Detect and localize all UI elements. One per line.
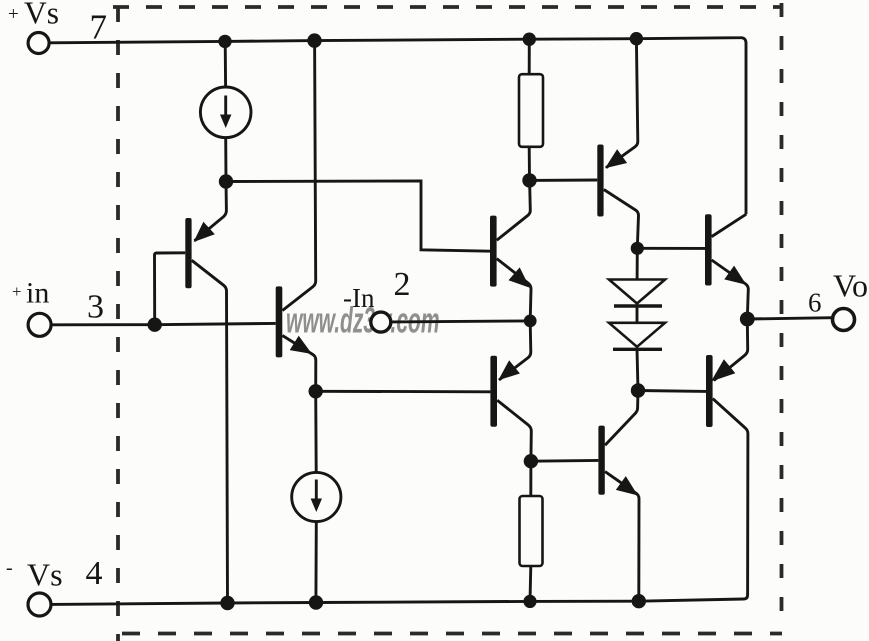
node Q7 base / diode bottom <box>631 383 645 397</box>
wire current source I1 bottom stub <box>224 138 227 182</box>
node output Vo <box>740 312 755 327</box>
terminal +in pin 3 <box>28 313 51 336</box>
node I1 output / Q1 emitter <box>219 174 233 188</box>
wire Q1 collector down to bottom rail <box>192 260 228 603</box>
svg-text:2: 2 <box>394 266 411 303</box>
node +in / Q1 base <box>148 318 162 332</box>
node -In / Q3 Q5 emitters <box>524 315 537 328</box>
wire Q5 emitter <box>499 321 531 380</box>
wire Q3 emitter <box>497 259 531 321</box>
label -Vs <box>6 557 63 593</box>
transistor Q5 bar (PNP) <box>490 356 497 427</box>
wire Vo lead <box>747 318 833 319</box>
wire current source I2 bottom stub <box>314 522 317 603</box>
current source I1 <box>200 87 251 138</box>
wire diode chain stubs <box>637 248 638 390</box>
wire +in lead <box>51 323 275 324</box>
transistor Q3 emitter arrow <box>509 267 530 287</box>
transistor Q5 emitter arrow <box>498 360 520 380</box>
label +Vs <box>8 0 59 31</box>
node Q2 emitter / Q5 base <box>309 384 323 398</box>
node bottom rail at R2 <box>523 595 536 608</box>
node on top rail at Q4 emitter <box>630 32 643 45</box>
node R1 bottom / Q4 base <box>522 173 536 187</box>
wire Q5 collector <box>497 400 531 461</box>
wire bottom supply rail <box>51 601 638 604</box>
transistor Q6 bar (NPN output) <box>705 214 712 285</box>
wire Q5 base <box>316 390 491 393</box>
wire Q3 collector <box>497 180 531 240</box>
transistor Q1 emitter arrow <box>194 222 215 242</box>
IC package boundary (dashed box) <box>113 3 783 641</box>
node on top rail at I1 branch <box>218 35 231 48</box>
wire -In lead <box>391 321 530 322</box>
wire R2 top <box>529 461 532 496</box>
current source I2 <box>292 472 341 521</box>
wire Q1 emitter <box>195 182 227 241</box>
svg-text:Vo: Vo <box>833 268 868 304</box>
terminal -Vs pin 4 <box>28 593 51 616</box>
svg-text:6: 6 <box>808 288 822 318</box>
svg-text:7: 7 <box>90 8 108 47</box>
wire Q6 base <box>637 247 705 250</box>
node Q5 collector / Q8 base / R2 <box>524 454 538 468</box>
wire current source I1 top stub <box>224 41 227 87</box>
transistor Q2 emitter arrow <box>290 336 312 354</box>
wire Q2 emitter <box>282 336 315 392</box>
transistor Q7 emitter arrow <box>711 359 735 381</box>
node on top rail at R1 <box>523 33 536 46</box>
label +in <box>12 277 49 310</box>
node on top rail at Q2 collector <box>307 33 321 47</box>
svg-text:Vs: Vs <box>27 557 63 593</box>
wire Q8 emitter down to bottom rail <box>605 472 639 602</box>
terminal +Vs pin 7 <box>28 33 49 54</box>
wire R1 bottom <box>528 147 531 181</box>
transistor Q8 bar (NPN) <box>598 426 604 495</box>
terminal Vo pin 6 <box>833 309 855 331</box>
diode D2 <box>609 323 665 350</box>
transistor Q3 bar (NPN) <box>490 216 497 287</box>
wire Q7 emitter <box>714 319 748 381</box>
svg-text:4: 4 <box>86 555 103 592</box>
node bottom rail at I2 <box>309 595 323 609</box>
diode D1 <box>609 280 665 307</box>
wire Q1 base <box>155 253 186 325</box>
wire Q6 collector <box>712 214 747 236</box>
transistor Q4 bar (PNP) <box>597 145 603 217</box>
wire Q8 collector <box>605 391 638 446</box>
wire +Vs lead <box>49 41 225 42</box>
wire Q4 emitter <box>606 39 638 168</box>
wire Q7 collector down to bottom rail <box>639 399 748 602</box>
resistor R1 <box>519 74 543 147</box>
wire Q7 base <box>638 389 706 393</box>
svg-text:in: in <box>26 277 49 310</box>
node bottom rail at Q8 emitter <box>632 594 646 608</box>
svg-text:Vs: Vs <box>24 0 59 31</box>
wire node A to Q3 base <box>226 181 490 251</box>
svg-text:-In: -In <box>343 283 375 313</box>
transistor Q6 emitter arrow <box>724 266 746 285</box>
wire R2 bottom <box>529 566 533 601</box>
wire current source I2 top stub <box>314 391 317 472</box>
transistor Q7 bar (PNP output) <box>706 355 713 427</box>
transistor Q4 emitter arrow <box>605 149 627 168</box>
wire Q2 collector up to top rail <box>282 41 315 311</box>
svg-text:+: + <box>8 4 19 25</box>
transistor Q1 bar (PNP input) <box>185 218 191 288</box>
resistor R2 <box>520 496 543 566</box>
wire Q4 base <box>530 179 598 182</box>
svg-text:-: - <box>6 557 13 579</box>
wire Q6 emitter <box>712 260 749 319</box>
wire Q8 base <box>531 459 599 463</box>
wire Q4 collector <box>604 190 639 249</box>
svg-text:3: 3 <box>87 289 104 326</box>
node Q6 base / diode top <box>631 242 644 255</box>
transistor Q2 bar (NPN) <box>276 286 283 357</box>
wire top supply rail <box>225 38 746 215</box>
wire R1 top <box>528 39 531 74</box>
svg-text:+: + <box>12 282 22 301</box>
node bottom rail at Q1 collector <box>220 596 234 610</box>
transistor Q8 emitter arrow <box>616 476 638 495</box>
terminal -In pin 2 <box>371 312 391 332</box>
